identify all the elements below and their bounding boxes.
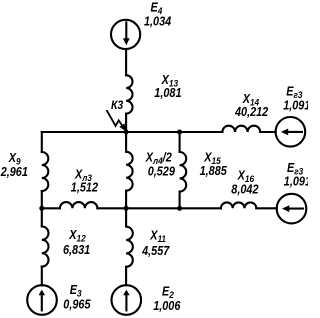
wire: [41, 208, 43, 226]
wire: [125, 208, 127, 226]
reactance X9: [42, 152, 49, 191]
top bus wire: [42, 131, 223, 133]
short-circuit arrow K3: [107, 111, 126, 131]
svg-text:1,091: 1,091: [283, 99, 308, 113]
svg-text:1,081: 1,081: [154, 86, 181, 100]
svg-text:6,831: 6,831: [63, 243, 90, 257]
wire: [256, 207, 276, 209]
node junction lower-right: [177, 206, 182, 211]
source E3: [27, 285, 57, 315]
reactance X16: [221, 202, 256, 208]
wire: [125, 49, 127, 75]
svg-text:1,885: 1,885: [200, 164, 228, 178]
wire: [41, 267, 43, 286]
source Eg3 bottom: [277, 194, 307, 224]
svg-text:0,965: 0,965: [63, 298, 91, 312]
wire: [125, 267, 127, 285]
reactance X12: [42, 226, 49, 266]
reactance X11: [126, 227, 133, 267]
source E2: [112, 285, 142, 315]
reactance Xl3: [60, 202, 98, 208]
reactance Xl4/2: [126, 152, 132, 191]
svg-text:0,529: 0,529: [148, 165, 176, 179]
reactance X14: [222, 126, 260, 132]
svg-text:К3: К3: [111, 99, 124, 112]
node junction lower-left: [39, 206, 44, 211]
wire: [125, 114, 127, 132]
svg-text:1,512: 1,512: [71, 181, 99, 195]
wire: [41, 191, 43, 208]
lower bus wire: [42, 207, 60, 209]
left branch wire: [41, 132, 43, 152]
source E4: [111, 20, 140, 49]
node junction lower-middle: [124, 206, 129, 211]
node junction top-right: [177, 130, 182, 135]
svg-text:40,212: 40,212: [234, 105, 269, 119]
svg-text:1,006: 1,006: [153, 299, 181, 313]
wire: [260, 131, 275, 133]
svg-text:1,091: 1,091: [284, 175, 308, 189]
node junction K3: [124, 130, 129, 135]
lower bus wire: [97, 207, 220, 209]
svg-text:4,557: 4,557: [141, 244, 170, 258]
middle branch wire: [125, 132, 127, 152]
source Eg3 top: [276, 117, 306, 147]
reactance X15: [180, 152, 187, 192]
wire: [125, 191, 127, 209]
svg-text:8,042: 8,042: [231, 183, 259, 197]
right branch wire: [179, 132, 181, 152]
svg-text:1,034: 1,034: [144, 15, 172, 29]
wire: [179, 192, 181, 209]
reactance X13: [126, 75, 132, 113]
svg-text:2,961: 2,961: [0, 165, 28, 179]
